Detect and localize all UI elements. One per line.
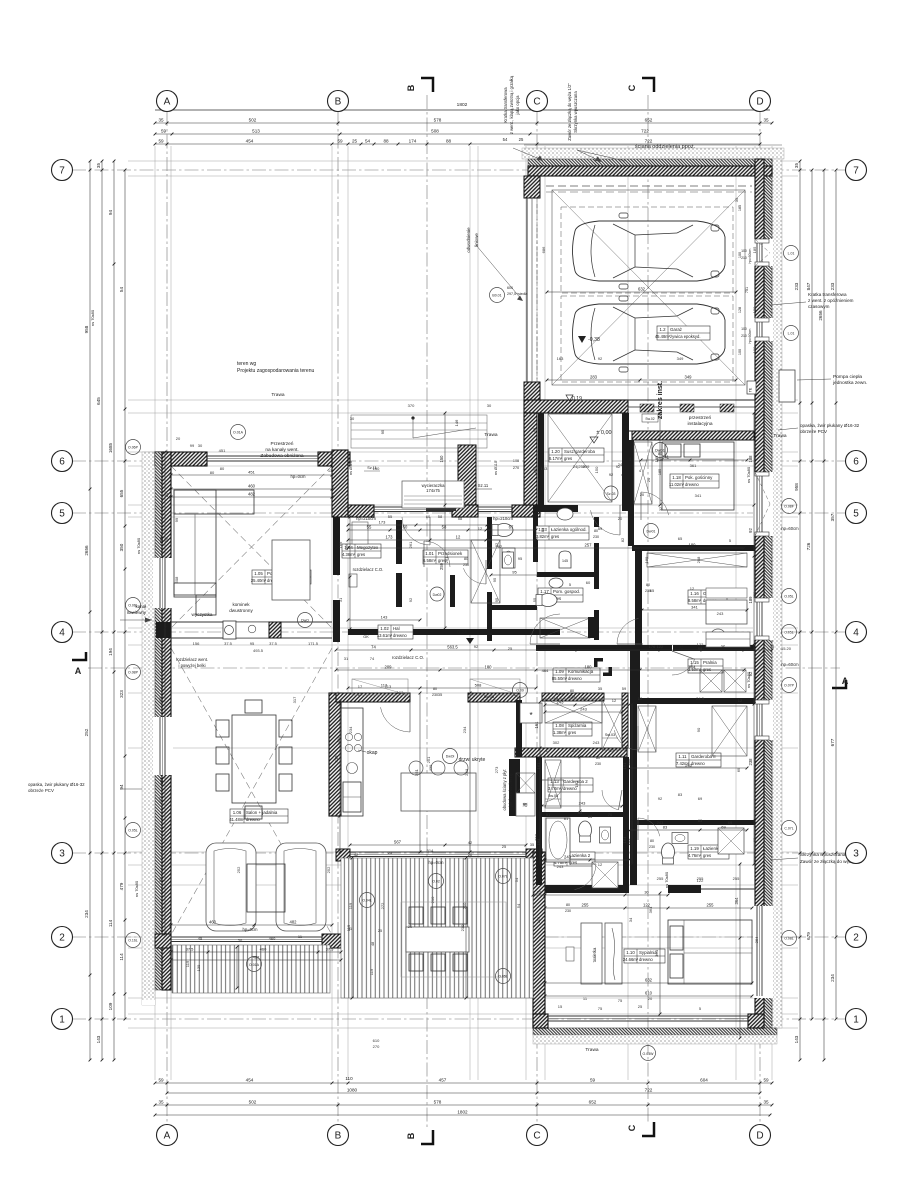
svg-text:62: 62	[752, 837, 757, 842]
svg-text:161: 161	[574, 780, 579, 787]
wall 1.20/guest	[622, 413, 629, 511]
room 1.01 label	[423, 550, 468, 564]
svg-text:234: 234	[830, 974, 835, 982]
svg-text:502: 502	[249, 1099, 257, 1104]
svg-text:283: 283	[590, 374, 598, 379]
svg-text:B: B	[335, 1131, 342, 1142]
parking space dashed 2	[561, 296, 733, 382]
axis circle 7 left	[52, 160, 73, 181]
svg-text:45: 45	[198, 936, 203, 941]
svg-text:166: 166	[344, 543, 349, 550]
room 1.11 label	[676, 753, 721, 767]
svg-text:243: 243	[657, 820, 664, 825]
wall 1.01 east lower	[487, 592, 492, 641]
svg-text:12: 12	[690, 586, 695, 591]
svg-text:35: 35	[598, 686, 603, 691]
car 1	[573, 213, 726, 289]
svg-text:69: 69	[721, 824, 726, 829]
svg-text:37.5: 37.5	[269, 641, 278, 646]
room 1.08 label	[553, 722, 592, 736]
svg-text:1: 1	[853, 1015, 859, 1026]
svg-text:25: 25	[378, 928, 383, 933]
svg-text:12: 12	[456, 534, 461, 539]
svg-text:230: 230	[595, 762, 601, 766]
svg-text:119: 119	[369, 968, 374, 975]
svg-text:Hal: Hal	[393, 626, 400, 631]
svg-text:189: 189	[644, 556, 649, 563]
svg-text:30: 30	[198, 443, 203, 448]
svg-text:726: 726	[806, 542, 811, 550]
svg-text:1.01: 1.01	[425, 551, 434, 556]
svg-text:ns 70x80: ns 70x80	[90, 309, 95, 326]
svg-text:92: 92	[609, 473, 613, 477]
svg-text:ns 70x80: ns 70x80	[746, 671, 751, 688]
svg-text:677: 677	[830, 738, 835, 746]
svg-text:80: 80	[658, 452, 662, 456]
toilet 145 arch	[559, 551, 571, 568]
section marker C top	[642, 78, 654, 92]
svg-text:20: 20	[176, 436, 181, 441]
svg-text:przestrzeń: przestrzeń	[689, 415, 712, 421]
room 1.20 label	[549, 448, 604, 462]
svg-text:C: C	[627, 84, 637, 91]
svg-text:gres: gres	[568, 730, 576, 735]
dining table + chairs	[216, 700, 292, 819]
svg-text:25: 25	[388, 850, 393, 855]
przestrzen instalacyjna duct marks	[640, 404, 654, 412]
svg-text:243: 243	[564, 854, 572, 859]
svg-text:83: 83	[616, 644, 621, 649]
room 1.06 label	[230, 809, 288, 823]
wall west wing north	[155, 452, 207, 466]
terrace deck right	[341, 858, 533, 998]
svg-text:Przedsionek: Przedsionek	[438, 551, 463, 556]
svg-text:hp=60cm: hp=60cm	[781, 526, 799, 531]
svg-text:O.07P: O.07P	[784, 684, 795, 688]
svg-text:gres: gres	[564, 456, 572, 461]
table room 1.05	[272, 540, 310, 600]
svg-text:1685: 1685	[108, 442, 113, 453]
wycieraczka entry mat	[402, 481, 464, 508]
svg-text:233: 233	[794, 282, 799, 290]
svg-text:578: 578	[434, 117, 442, 122]
svg-text:O.05L: O.05L	[498, 975, 508, 979]
svg-text:Skrzynka wpuszczana: Skrzynka wpuszczana	[573, 91, 578, 133]
wall 1.13/1.14	[542, 812, 623, 817]
svg-text:Projektu zagospodarowania tere: Projektu zagospodarowania terenu	[237, 368, 314, 374]
svg-text:L.01: L.01	[788, 252, 795, 256]
svg-text:35: 35	[158, 1099, 164, 1104]
svg-text:20: 20	[646, 477, 651, 482]
svg-text:54: 54	[514, 877, 519, 882]
wall salon south posts + windows	[155, 934, 171, 948]
svg-text:75: 75	[618, 998, 623, 1003]
svg-text:185: 185	[738, 205, 742, 211]
svg-text:99: 99	[164, 537, 169, 542]
svg-text:jako opcja: jako opcja	[515, 95, 520, 116]
svg-text:563.5: 563.5	[447, 644, 458, 649]
svg-text:30: 30	[487, 403, 492, 408]
svg-text:139: 139	[196, 964, 201, 971]
svg-text:Dw01: Dw01	[647, 530, 656, 534]
svg-text:69: 69	[728, 820, 733, 825]
bedroom east window	[753, 906, 773, 998]
wall hall west upper	[333, 517, 340, 575]
axis circle 2 left	[52, 927, 73, 948]
window casement dashes	[755, 472, 770, 504]
section marker C bottom	[642, 1122, 654, 1136]
svg-text:258: 258	[696, 556, 701, 563]
svg-text:482: 482	[253, 954, 260, 959]
svg-text:drewno: drewno	[393, 633, 407, 638]
svg-text:508: 508	[174, 576, 179, 583]
svg-text:92: 92	[598, 356, 603, 361]
wall spizarnia south (hatched)	[515, 748, 627, 757]
svg-text:243: 243	[580, 706, 587, 711]
svg-text:70: 70	[608, 812, 613, 817]
svg-text:20: 20	[640, 493, 644, 497]
svg-text:514: 514	[427, 848, 434, 853]
svg-text:82: 82	[494, 542, 499, 547]
svg-text:272: 272	[380, 902, 385, 909]
svg-text:toaletka: toaletka	[592, 947, 597, 962]
svg-text:261: 261	[408, 541, 413, 548]
svg-text:instalacyjna: instalacyjna	[687, 421, 712, 427]
svg-text:24.3: 24.3	[572, 748, 581, 753]
svg-text:35: 35	[794, 163, 799, 169]
svg-text:161: 161	[534, 721, 539, 729]
wall guest room north (hatched)	[632, 431, 754, 440]
wall north house (under garage)	[524, 400, 628, 413]
svg-text:|: |	[629, 456, 630, 461]
kitchen island	[401, 773, 476, 811]
svg-text:80: 80	[210, 470, 215, 475]
svg-text:opaska, żwir płukany Ø16-32: opaska, żwir płukany Ø16-32	[28, 782, 85, 787]
svg-text:42: 42	[354, 852, 359, 857]
garage lintel dashes	[546, 185, 752, 187]
gabinet closet	[647, 553, 747, 567]
svg-text:122: 122	[697, 878, 704, 883]
wall 1.04/1.01 lower	[396, 573, 402, 607]
svg-text:6: 6	[59, 457, 65, 468]
svg-text:rozdzielacz C.O.: rozdzielacz C.O.	[353, 567, 384, 572]
svg-text:230: 230	[432, 693, 438, 697]
svg-text:194: 194	[108, 648, 113, 656]
svg-text:567: 567	[394, 839, 402, 844]
svg-text:0,24: 0,24	[457, 630, 467, 636]
svg-text:233: 233	[830, 282, 835, 290]
insulation layer garage top	[528, 159, 772, 166]
internal dims	[336, 649, 772, 651]
wall bit przedsionek	[450, 575, 455, 607]
svg-text:174x75: 174x75	[426, 488, 440, 493]
svg-text:74: 74	[370, 656, 375, 661]
svg-text:4: 4	[59, 628, 65, 639]
svg-text:zakres inst.: zakres inst.	[657, 381, 664, 419]
svg-text:350: 350	[119, 543, 124, 551]
svg-text:O.05L: O.05L	[128, 829, 138, 833]
svg-text:145: 145	[562, 559, 568, 563]
svg-text:D: D	[756, 97, 763, 108]
top axis line	[155, 109, 770, 111]
svg-text:12: 12	[738, 698, 743, 703]
svg-text:hp=60cm: hp=60cm	[781, 662, 799, 667]
svg-text:370: 370	[408, 403, 415, 408]
svg-text:460: 460	[260, 946, 267, 951]
svg-text:L.01: L.01	[788, 332, 795, 336]
svg-text:17: 17	[546, 748, 551, 753]
svg-text:439: 439	[336, 736, 341, 743]
svg-text:A: A	[164, 1131, 171, 1142]
outdoor dining table	[406, 927, 469, 952]
svg-text:1.18: 1.18	[672, 475, 681, 480]
1.13 closet	[545, 760, 561, 808]
svg-text:80: 80	[596, 756, 600, 760]
wycieraczka 2	[604, 486, 618, 500]
svg-text:610: 610	[645, 990, 653, 995]
insulation band garage top	[522, 148, 784, 159]
wall hall south / corridor	[420, 629, 560, 635]
svg-text:364: 364	[734, 897, 739, 905]
svg-text:251: 251	[414, 768, 419, 775]
svg-text:drewno: drewno	[691, 761, 705, 766]
svg-text:83: 83	[578, 810, 583, 815]
garage inner rect	[552, 190, 745, 385]
svg-text:24: 24	[618, 462, 623, 467]
svg-text:88: 88	[446, 138, 452, 143]
svg-text:A: A	[842, 676, 849, 686]
axis circle 4 left	[52, 622, 73, 643]
svg-text:≋: ≋	[522, 802, 528, 809]
svg-text:255: 255	[733, 876, 740, 881]
svg-text:163: 163	[557, 356, 564, 361]
svg-text:Pompa ciepła: Pompa ciepła	[833, 374, 862, 380]
svg-text:847: 847	[806, 282, 811, 290]
wall corridor south	[536, 645, 672, 651]
svg-text:z went. z opóźnieniem: z went. z opóźnieniem	[808, 298, 854, 303]
svg-text:69: 69	[698, 796, 703, 801]
svg-text:teren wg: teren wg	[237, 361, 256, 367]
svg-text:35: 35	[438, 692, 443, 697]
svg-text:341: 341	[691, 604, 698, 609]
sink top 1.03	[557, 508, 573, 520]
svg-text:Trawa: Trawa	[271, 392, 284, 398]
svg-text:113: 113	[581, 696, 588, 701]
svg-text:100: 100	[741, 249, 747, 253]
wall guest/gabinet	[632, 545, 755, 551]
axis circle C bottom	[527, 1125, 548, 1146]
svg-text:Trawa: Trawa	[773, 433, 786, 439]
sink 1.17	[549, 578, 563, 588]
svg-text:60: 60	[426, 514, 431, 519]
west wall fireplace junction	[156, 622, 171, 638]
svg-text:323: 323	[119, 690, 124, 698]
svg-text:349: 349	[685, 374, 693, 379]
svg-text:25: 25	[638, 1004, 643, 1009]
svg-text:255: 255	[582, 902, 590, 907]
svg-text:Kratka transferowa: Kratka transferowa	[808, 292, 847, 297]
svg-text:128: 128	[738, 307, 742, 313]
window east wall y=239	[753, 239, 773, 266]
svg-text:D: D	[756, 1131, 763, 1142]
svg-text:255: 255	[707, 902, 715, 907]
svg-text:Dw02: Dw02	[433, 593, 442, 597]
spizarnia counters X	[545, 699, 602, 723]
wall 1.11 west	[630, 704, 637, 885]
svg-text:80: 80	[433, 687, 437, 691]
svg-text:1.16: 1.16	[690, 591, 699, 596]
svg-text:454: 454	[246, 138, 254, 143]
left dimension columns	[89, 161, 91, 1060]
guest wardrobe	[634, 442, 652, 504]
wall 1.03/1.17 partition	[537, 572, 594, 577]
svg-text:103: 103	[397, 690, 404, 695]
axis circle D bottom	[750, 1125, 771, 1146]
svg-text:150: 150	[373, 466, 380, 471]
svg-text:54: 54	[503, 137, 508, 142]
svg-text:460: 460	[248, 483, 256, 488]
bath 1.03 fixtures	[492, 524, 513, 537]
svg-text:37.5: 37.5	[224, 641, 233, 646]
svg-text:83: 83	[698, 818, 703, 823]
svg-text:100: 100	[752, 346, 757, 353]
symbol circles	[126, 440, 141, 455]
window east wall y=598	[753, 598, 773, 640]
svg-text:O.08L: O.08L	[784, 937, 794, 941]
svg-text:119: 119	[536, 916, 541, 923]
svg-text:15.20: 15.20	[781, 646, 792, 651]
axis circle B top	[328, 91, 349, 112]
svg-text:655: 655	[119, 489, 124, 497]
svg-text:Pok. gościnny: Pok. gościnny	[685, 475, 713, 480]
room 1.10 label	[624, 949, 665, 963]
svg-text:31: 31	[338, 597, 343, 602]
terrace deck left strip	[172, 945, 330, 993]
kitchen counters	[341, 708, 363, 816]
svg-text:83: 83	[588, 814, 593, 819]
svg-text:C: C	[627, 1124, 637, 1131]
svg-text:122: 122	[643, 902, 651, 907]
svg-text:80: 80	[566, 903, 570, 907]
svg-text:hp=0cm: hp=0cm	[242, 927, 258, 932]
svg-text:161: 161	[622, 762, 627, 769]
svg-text:Łazienka ogólnod.: Łazienka ogólnod.	[551, 527, 587, 532]
outdoor chairs top	[409, 907, 467, 924]
svg-text:259: 259	[583, 464, 590, 469]
room 1.07 label	[411, 793, 451, 807]
svg-text:20: 20	[238, 938, 243, 943]
svg-text:161: 161	[536, 762, 541, 769]
gabinet desk	[706, 600, 747, 624]
toaletka bench mirror	[605, 923, 622, 984]
svg-text:257: 257	[585, 542, 593, 547]
pompa ciepla unit	[779, 370, 795, 402]
svg-text:82: 82	[620, 537, 625, 542]
section marker A left	[72, 652, 86, 660]
svg-text:25: 25	[502, 844, 507, 849]
svg-text:± 0,00: ± 0,00	[596, 430, 611, 436]
svg-text:okap: okap	[367, 750, 378, 756]
svg-text:4: 4	[621, 473, 623, 477]
svg-text:37.5: 37.5	[326, 946, 335, 951]
svg-text:173: 173	[379, 519, 386, 524]
svg-text:obudowa ściany z płyt: obudowa ściany z płyt	[502, 769, 507, 811]
svg-text:59: 59	[598, 526, 603, 531]
svg-text:655: 655	[158, 696, 163, 703]
axis circle A bottom	[157, 1125, 178, 1146]
svg-text:146: 146	[454, 419, 459, 426]
svg-text:751: 751	[745, 287, 749, 293]
svg-text:493.5: 493.5	[253, 648, 264, 653]
kominek box	[236, 622, 269, 638]
svg-text:210: 210	[462, 902, 467, 909]
wc 1.17 fixtures	[536, 594, 557, 607]
wall kitchen north	[336, 693, 410, 702]
window east wall y=318	[753, 318, 773, 341]
svg-text:O.05L: O.05L	[784, 595, 794, 599]
Sw.02 box	[642, 414, 658, 422]
svg-text:Pom. gospod.: Pom. gospod.	[553, 589, 580, 594]
svg-text:O.08P: O.08P	[128, 671, 139, 675]
svg-text:341: 341	[662, 454, 670, 459]
svg-text:95: 95	[492, 577, 497, 582]
svg-text:wyczystka: wyczystka	[192, 612, 213, 617]
kitchen skylight box	[520, 703, 542, 723]
pergola dashed outline	[401, 902, 506, 977]
svg-text:156: 156	[193, 641, 200, 646]
svg-text:451: 451	[219, 448, 226, 453]
svg-text:59: 59	[158, 1077, 164, 1082]
svg-text:55: 55	[388, 514, 393, 519]
small room washer	[502, 548, 515, 568]
dims under salon windows	[171, 951, 341, 953]
axis circle 7 right	[846, 160, 867, 181]
svg-text:37.5: 37.5	[186, 946, 195, 951]
svg-text:1.11: 1.11	[678, 754, 687, 759]
svg-text:Kratka transferowa: Kratka transferowa	[503, 87, 508, 123]
svg-text:122: 122	[697, 642, 704, 647]
wall garage west posts + linear drain	[524, 176, 540, 198]
wall bedroom north east part	[668, 885, 701, 893]
svg-text:652: 652	[645, 117, 653, 122]
svg-text:610: 610	[373, 1038, 380, 1043]
garage diagonals	[552, 190, 745, 385]
svg-text:92: 92	[679, 644, 684, 649]
kitchen upper cabinets dashed	[352, 679, 408, 695]
svg-text:95: 95	[380, 429, 385, 434]
windows entry north	[374, 506, 452, 508]
svg-text:5: 5	[59, 509, 65, 520]
svg-text:Sz.11: Sz.11	[478, 483, 489, 488]
axis circle 5 right	[846, 503, 867, 524]
svg-text:0,19: 0,19	[572, 396, 582, 402]
svg-text:12: 12	[610, 748, 615, 753]
master bed	[668, 920, 752, 984]
svg-text:464: 464	[542, 668, 549, 673]
svg-text:Trawa: Trawa	[484, 432, 497, 438]
insulation band south bedroom	[533, 1028, 777, 1035]
svg-text:150: 150	[439, 455, 444, 463]
svg-text:4.76m²: 4.76m²	[688, 853, 702, 858]
svg-text:80: 80	[464, 557, 468, 561]
svg-text:42: 42	[468, 840, 473, 845]
svg-text:-0,38: -0,38	[588, 337, 600, 343]
deck circle symbol	[247, 957, 262, 972]
svg-text:59: 59	[158, 138, 164, 143]
svg-text:230: 230	[463, 563, 469, 567]
wall fireplace band west part	[348, 629, 460, 635]
svg-text:99: 99	[190, 443, 195, 448]
